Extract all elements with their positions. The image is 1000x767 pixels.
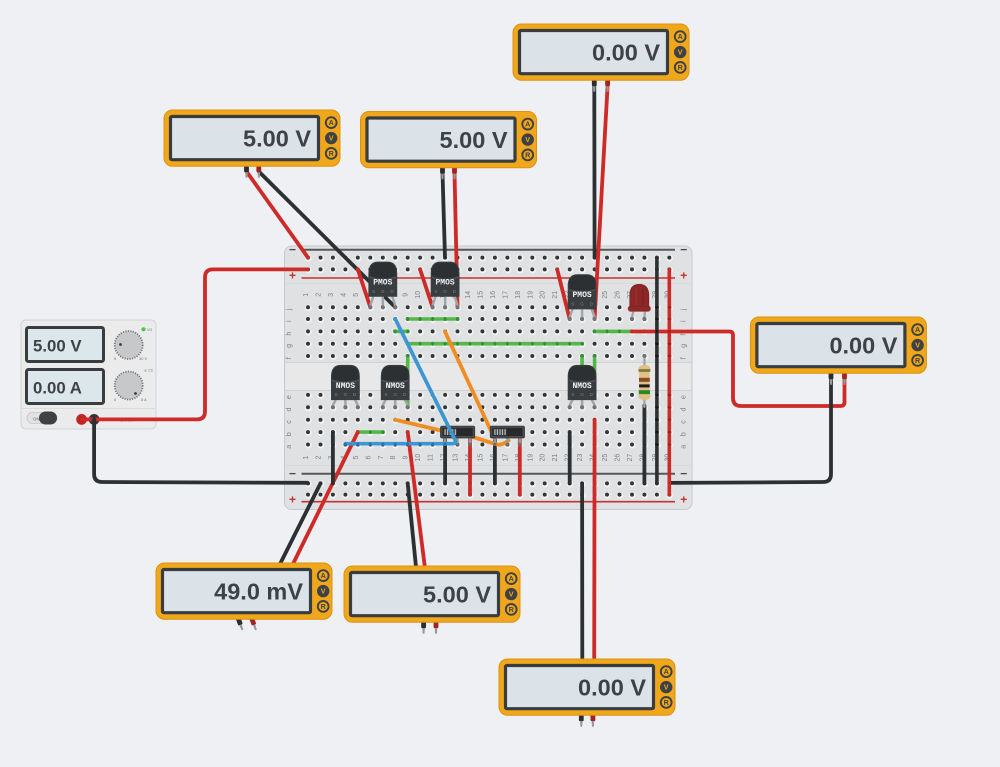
wire green jumper f24-e24 (green jumper) xyxy=(593,355,596,395)
svg-text:PMOS: PMOS xyxy=(373,279,392,288)
svg-text:A: A xyxy=(329,118,334,127)
wire meter M4 red lead to h27 xyxy=(632,332,845,407)
power supply indicator LED xyxy=(141,327,145,331)
wire meter M1 black lead to j8 xyxy=(259,172,395,308)
svg-text:S: S xyxy=(335,392,338,397)
svg-text:5.00 V: 5.00 V xyxy=(33,337,82,356)
power supply current display xyxy=(27,370,104,404)
svg-text:4: 4 xyxy=(340,293,347,297)
svg-text:R: R xyxy=(915,356,921,365)
svg-text:S: S xyxy=(434,289,437,294)
svg-text:G: G xyxy=(580,301,584,306)
svg-text:2: 2 xyxy=(316,456,323,460)
svg-text:5: 5 xyxy=(353,456,360,460)
svg-text:NMOS: NMOS xyxy=(572,382,591,391)
svg-text:19: 19 xyxy=(527,291,534,299)
svg-text:ON: ON xyxy=(33,417,40,422)
svg-text:PMOS: PMOS xyxy=(572,291,591,300)
switch S2 (slide) xyxy=(490,426,524,446)
svg-text:NMOS: NMOS xyxy=(336,382,355,391)
wire orange c8 to switch S1 left pin xyxy=(395,420,443,431)
wire black b3 to bottom minus col3 xyxy=(331,432,335,483)
svg-text:17: 17 xyxy=(502,291,509,299)
svg-text:g: g xyxy=(679,344,688,348)
svg-text:d: d xyxy=(679,408,688,412)
svg-text:d: d xyxy=(284,408,293,412)
svg-text:5.00 V: 5.00 V xyxy=(423,582,491,608)
svg-text:0.00 V: 0.00 V xyxy=(592,40,660,66)
multimeter M4 (0.00 V) xyxy=(750,317,926,385)
svg-text:V: V xyxy=(329,134,334,143)
svg-text:10: 10 xyxy=(415,454,422,462)
svg-text:18: 18 xyxy=(515,291,522,299)
svg-text:A: A xyxy=(664,667,669,676)
svg-text:R: R xyxy=(329,149,335,158)
wire green jumper g9-g23 (green jumper) xyxy=(406,342,583,345)
svg-text:9: 9 xyxy=(403,456,410,460)
wire orange h12 to switch S2 xyxy=(445,331,495,438)
wire meter M5 black lead to bottom minus rail col2 xyxy=(278,483,321,569)
wire red jumper top plus col10 to j11 xyxy=(420,269,433,307)
transistor Q4 (NMOS) xyxy=(331,365,360,409)
svg-text:20: 20 xyxy=(540,291,547,299)
wire green jumper b5-b7 (green jumper) xyxy=(356,431,384,434)
wire meter M5 red lead to b5 xyxy=(291,432,358,569)
power supply red terminal xyxy=(76,414,87,425)
svg-text:19: 19 xyxy=(527,454,534,462)
wire green jumper f9-d9 (green jumper) xyxy=(406,355,409,407)
svg-text:26: 26 xyxy=(615,291,622,299)
power supply black terminal xyxy=(89,414,100,425)
svg-text:h: h xyxy=(284,332,293,336)
svg-text:−: − xyxy=(680,467,687,481)
svg-text:1: 1 xyxy=(303,293,310,297)
wire meter M2 black lead to top minus rail col12 xyxy=(443,173,446,258)
svg-text:c: c xyxy=(679,420,688,424)
svg-text:5 A: 5 A xyxy=(141,397,147,402)
svg-text:V: V xyxy=(915,341,920,350)
multimeter M1 (5.00 V) xyxy=(164,110,340,178)
svg-text:10: 10 xyxy=(415,291,422,299)
svg-text:23: 23 xyxy=(577,454,584,462)
svg-text:j: j xyxy=(284,308,293,311)
svg-text:A: A xyxy=(915,325,920,334)
svg-text:21: 21 xyxy=(552,454,559,462)
svg-text:27: 27 xyxy=(627,454,634,462)
wire red col14 switch S1 to bottom plus xyxy=(468,440,472,495)
svg-text:0.00 V: 0.00 V xyxy=(829,333,897,359)
svg-text:S: S xyxy=(571,392,574,397)
svg-text:g: g xyxy=(284,344,293,348)
svg-text:8: 8 xyxy=(390,456,397,460)
svg-text:S: S xyxy=(372,289,375,294)
svg-text:G: G xyxy=(443,289,447,294)
svg-text:−: − xyxy=(289,243,296,257)
svg-text:S: S xyxy=(384,392,387,397)
svg-text:R: R xyxy=(321,602,327,611)
wire red jumper top plus col5 to j6 xyxy=(358,269,371,307)
wire black vertical col29 top minus to bottom minus xyxy=(656,258,659,484)
power supply PS1 xyxy=(21,320,156,429)
svg-text:26: 26 xyxy=(615,454,622,462)
svg-text:17: 17 xyxy=(502,454,509,462)
svg-text:V: V xyxy=(678,48,683,57)
svg-text:a: a xyxy=(284,445,293,449)
svg-text:1: 1 xyxy=(303,456,310,460)
transistor Q5 (NMOS) xyxy=(381,365,410,409)
power supply voltage display xyxy=(27,328,104,362)
wire green jumper f23-e23 (green jumper) xyxy=(581,355,584,395)
transistor Q1 (PMOS) xyxy=(368,262,397,310)
svg-text:A: A xyxy=(678,32,683,41)
svg-text:e: e xyxy=(284,395,293,399)
wire red vertical col30 top plus to bottom plus xyxy=(668,269,671,494)
svg-text:a: a xyxy=(679,445,688,449)
wire meter M1 red lead to top minus rail col1 xyxy=(247,172,309,258)
svg-text:G: G xyxy=(381,289,385,294)
multimeter M5 (49.0 mV) xyxy=(156,563,332,631)
svg-text:G: G xyxy=(580,392,584,397)
svg-text:G: G xyxy=(344,392,348,397)
svg-text:25: 25 xyxy=(602,291,609,299)
svg-text:A: A xyxy=(525,120,530,129)
svg-text:0.00 A: 0.00 A xyxy=(33,379,82,398)
svg-text:6: 6 xyxy=(365,456,372,460)
svg-text:5.00 V: 5.00 V xyxy=(440,127,508,153)
svg-text:13: 13 xyxy=(453,454,460,462)
svg-text:R: R xyxy=(509,605,515,614)
resistor R1 xyxy=(638,354,650,407)
power supply current knob xyxy=(115,372,143,400)
svg-text:NMOS: NMOS xyxy=(386,382,405,391)
svg-text:3: 3 xyxy=(328,293,335,297)
wire green jumper i9-i13 (green jumper) xyxy=(406,318,459,321)
wire black col12 switch S1 to bottom minus xyxy=(443,440,447,484)
wire red jumper top plus col21 to i22 xyxy=(557,269,569,318)
svg-text:b: b xyxy=(679,432,688,436)
svg-text:+: + xyxy=(289,493,296,507)
multimeter M7 (0.00 V) xyxy=(499,659,675,727)
power supply voltage knob xyxy=(115,331,143,359)
wire green jumper h24-h27 (green jumper) xyxy=(593,330,633,333)
wire meter M7 red lead to c24 xyxy=(592,420,596,665)
wire power supply black (-) to bottom minus rail col1 xyxy=(94,419,307,482)
svg-text:VO: VO xyxy=(147,328,152,332)
wire meter M4 black lead to bottom minus rail col30 xyxy=(670,378,831,483)
svg-text:15: 15 xyxy=(477,454,484,462)
svg-text:c: c xyxy=(284,420,293,424)
svg-text:R: R xyxy=(678,63,684,72)
svg-text:R: R xyxy=(525,151,531,160)
svg-text:b: b xyxy=(284,432,293,436)
wire black b22 to bottom minus col22 xyxy=(568,432,572,483)
transistor Q2 (PMOS) xyxy=(431,262,460,310)
svg-text:−: − xyxy=(289,467,296,481)
multimeter M6 (5.00 V) xyxy=(344,566,520,634)
svg-text:30 V: 30 V xyxy=(139,356,148,361)
svg-text:0.00 V: 0.00 V xyxy=(578,675,646,701)
wire black d28 resistor to bottom minus col28 xyxy=(643,406,647,484)
svg-text:25: 25 xyxy=(602,454,609,462)
svg-text:16: 16 xyxy=(490,291,497,299)
wire meter M3 red lead to i24 xyxy=(595,86,608,319)
wire meter M7 black lead to bottom minus rail col23 xyxy=(580,483,584,665)
svg-text:15: 15 xyxy=(477,291,484,299)
wire meter M3 black lead to top minus rail col24 xyxy=(592,86,596,258)
svg-text:A: A xyxy=(509,574,514,583)
svg-text:R: R xyxy=(664,698,670,707)
wire red col18 switch S2 to bottom plus xyxy=(518,440,522,495)
svg-text:5.00 V: 5.00 V xyxy=(243,126,311,152)
svg-text:9: 9 xyxy=(403,293,410,297)
svg-text:f: f xyxy=(284,357,293,359)
transistor Q3 (PMOS) xyxy=(568,274,597,321)
LED D1 (red) xyxy=(628,284,650,320)
svg-text:+: + xyxy=(680,493,687,507)
svg-text:20: 20 xyxy=(540,454,547,462)
svg-text:V: V xyxy=(664,683,669,692)
svg-text:7: 7 xyxy=(378,456,385,460)
svg-text:V: V xyxy=(525,135,530,144)
svg-text:49.0 mV: 49.0 mV xyxy=(214,579,303,605)
wire meter M6 black lead to bottom minus rail col9 xyxy=(408,483,417,572)
wire black col16 switch S2 to bottom minus xyxy=(493,440,497,484)
svg-text:5: 5 xyxy=(353,293,360,297)
svg-text:+: + xyxy=(680,269,687,283)
svg-text:◎ CC: ◎ CC xyxy=(144,369,154,373)
multimeter M3 (0.00 V) xyxy=(513,24,689,92)
wire meter M2 red lead to j13 xyxy=(455,173,458,308)
svg-text:j: j xyxy=(679,308,688,311)
svg-text:14: 14 xyxy=(465,291,472,299)
svg-text:G: G xyxy=(393,392,397,397)
svg-text:2: 2 xyxy=(316,293,323,297)
wire power supply red (+) to top plus rail col1 xyxy=(82,269,308,419)
wire meter M6 red lead to b9 xyxy=(408,432,426,572)
power supply ON switch xyxy=(27,413,57,424)
wire blue i8 to a4 xyxy=(344,319,455,446)
svg-text:S: S xyxy=(571,301,574,306)
switch S1 (slide) xyxy=(441,426,475,446)
breadboard xyxy=(284,243,692,510)
svg-text:V: V xyxy=(509,590,514,599)
svg-text:e: e xyxy=(679,395,688,399)
wire green jumper h8-h9 (green jumper) xyxy=(394,330,410,333)
svg-text:21: 21 xyxy=(552,291,559,299)
transistor Q6 (NMOS) xyxy=(568,365,597,409)
svg-text:PMOS: PMOS xyxy=(435,279,454,288)
multimeter M2 (5.00 V) xyxy=(361,112,537,180)
svg-text:V: V xyxy=(321,587,326,596)
svg-text:11: 11 xyxy=(428,454,435,461)
wire orange switch S1 right to a17 xyxy=(472,437,509,445)
svg-text:−: − xyxy=(680,243,687,257)
svg-text:A: A xyxy=(321,571,326,580)
svg-text:f: f xyxy=(679,357,688,359)
